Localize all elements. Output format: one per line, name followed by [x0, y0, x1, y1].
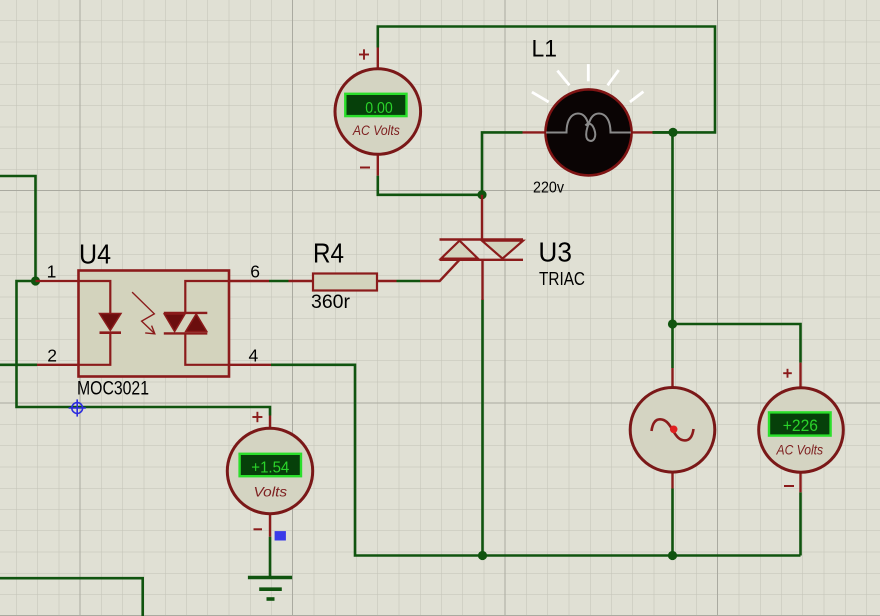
L1 filament loop: [585, 124, 595, 141]
U4 light arrow head: [145, 326, 155, 334]
svg-text:4: 4: [249, 345, 259, 365]
svg-text:AC Volts: AC Volts: [352, 123, 400, 138]
wire V2 minus to ground: [269, 537, 272, 578]
svg-text:+226: +226: [783, 416, 818, 435]
wire bottom left exit: [0, 578, 143, 616]
U4 pin 2 stub: [37, 364, 79, 366]
U4 phototriac right triangle: [186, 314, 207, 332]
svg-text:U4: U4: [79, 239, 111, 270]
V3 minus sign: [784, 485, 794, 487]
svg-text:1: 1: [47, 262, 57, 282]
svg-text:TRIAC: TRIAC: [539, 269, 585, 289]
svg-text:L1: L1: [532, 36, 558, 63]
U4 phototriac left triangle: [164, 314, 185, 332]
junction lamp right node: [668, 128, 677, 137]
V1 body circle: [335, 69, 421, 155]
wire branch node to V3 plus: [673, 324, 801, 363]
U4 body: [79, 271, 230, 377]
wire top rail from V1 plus to top-right corner down to lamp right: [378, 27, 715, 133]
V1 minus pin: [377, 154, 379, 175]
V2 body circle: [227, 428, 312, 513]
junction triac bottom rail node: [478, 551, 487, 560]
wire lamp left up from triac node: [482, 132, 523, 194]
U4 LED cathode bar: [100, 331, 122, 334]
R4 body: [313, 274, 377, 291]
V4 sample dot: [670, 426, 678, 434]
L1 bulb: [546, 89, 632, 175]
wire left feed into pin1 junction: [0, 176, 36, 281]
V2 plus pin: [269, 416, 271, 429]
svg-text:Volts: Volts: [254, 485, 288, 500]
wire triac MT1 down to bottom rail: [481, 300, 484, 556]
svg-text:MOC3021: MOC3021: [77, 379, 149, 400]
U4 phototriac bottom bar: [164, 332, 208, 334]
V4 sine symbol: [652, 419, 694, 440]
V3 display: [769, 412, 831, 435]
blue tag square: [275, 531, 286, 540]
wire pin4 right then down to bottom rail to V3 minus corner: [271, 365, 801, 556]
svg-text:0.00: 0.00: [365, 100, 393, 117]
V4 bottom pin: [671, 472, 673, 488]
U4 pin 6 internal lead: [185, 281, 229, 312]
svg-text:U3: U3: [538, 237, 572, 268]
junction V3 branch node: [668, 319, 677, 328]
wire V1 minus down and right to triac node: [378, 176, 482, 195]
wire pin6 to R4: [269, 280, 289, 283]
svg-text:AC Volts: AC Volts: [776, 442, 824, 457]
V1 display: [345, 94, 406, 116]
R4 left lead: [289, 280, 314, 282]
V2 minus sign: [254, 528, 263, 530]
svg-text:R4: R4: [313, 238, 344, 269]
svg-text:360r: 360r: [311, 292, 351, 313]
L1 rays: [532, 64, 644, 102]
svg-text:2: 2: [47, 345, 57, 365]
ground: [248, 578, 292, 600]
V3 plus pin: [799, 363, 801, 388]
wire junction to left drop and bottom run to V2 plus: [17, 281, 271, 416]
U4 LED D anode triangle: [100, 314, 122, 331]
U3 gate lead: [420, 260, 460, 281]
wire V3 minus down to rail: [799, 492, 802, 555]
wire R4 to triac gate: [397, 280, 421, 283]
V2 display: [240, 454, 301, 476]
L1 filament: [546, 114, 631, 133]
U3 MT2 lead: [481, 195, 483, 240]
svg-text:+1.54: +1.54: [251, 460, 289, 477]
junction pin1 node: [31, 276, 40, 285]
svg-text:220v: 220v: [533, 180, 564, 197]
wire pin2 from left edge: [0, 363, 37, 366]
V1 minus sign: [360, 167, 370, 169]
V1 plus pin: [377, 48, 379, 70]
U3 top bar: [440, 238, 524, 240]
U3 left triangle: [441, 241, 478, 259]
V4 top pin: [671, 368, 673, 388]
U4 pin 1 stub: [36, 281, 111, 313]
U4 pin 4 stub: [229, 364, 271, 366]
wire lamp right to AC source branch down: [653, 132, 673, 368]
V3 minus pin: [799, 472, 801, 492]
U3 bottom bar: [440, 259, 524, 261]
U4 light arrow: [132, 292, 155, 334]
origin marker: [69, 399, 86, 416]
svg-text:6: 6: [250, 262, 260, 282]
V3 plus sign: [783, 369, 792, 378]
V4 body circle: [630, 388, 715, 473]
V2 minus pin: [269, 513, 271, 537]
U3 right triangle: [482, 241, 523, 259]
R4 right lead: [377, 280, 397, 282]
U3 MT1 lead: [481, 260, 483, 300]
U4 phototriac lead to pin 4: [185, 334, 229, 365]
V1 plus sign: [359, 49, 369, 59]
U4 phototriac top bar: [164, 312, 208, 314]
V3 body circle: [759, 388, 844, 473]
junction source bottom rail node: [668, 551, 677, 560]
V2 plus sign: [252, 412, 262, 422]
L1 right pin: [631, 131, 653, 133]
U4 pin 6 stub: [229, 280, 269, 282]
U4 LED cathode lead to pin 2: [79, 334, 111, 365]
junction triac MT2 node: [477, 190, 486, 199]
L1 left pin: [523, 131, 547, 133]
wire AC source bottom to rail: [671, 489, 674, 556]
